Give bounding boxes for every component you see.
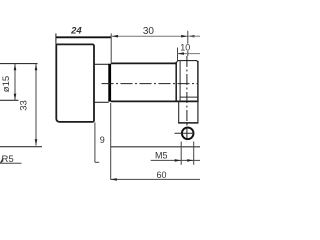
svg-text:24: 24 [70,25,82,36]
rear block right edge [197,61,199,102]
M5 arrow 2 [187,159,193,162]
hole horizontal crosshair [175,132,194,134]
dim 33 line [35,64,37,146]
M5 hole circle [182,128,194,140]
dim right of junction: arrow pointing left [188,35,194,38]
rear block top edge [176,61,198,63]
cylinder body bottom edge [111,100,199,102]
leader L-mark foot [95,161,99,163]
axis centerline (dash-dot) [102,83,199,85]
leader L-mark vertical from knob corner [94,122,96,162]
rear washer thick line [175,62,177,101]
dim line right stub [188,35,200,37]
svg-text:10: 10 [180,42,190,52]
dim phi15 line [14,64,16,100]
left ext line bottom (y146.7) [0,146,42,148]
svg-text:M5: M5 [155,151,168,161]
dim 33 top arrow [35,64,38,70]
rear lower step left edge [178,102,180,123]
M5 right extension line [193,142,195,165]
svg-text:ø15: ø15 [1,76,12,92]
M5 left extension line [180,142,182,165]
horizontal line y146.8 [111,146,200,148]
dim 33 bottom arrow [35,139,38,145]
dim 30 line [112,35,188,37]
svg-text:9: 9 [100,135,105,145]
dim 30 right arrow [181,35,187,38]
svg-text:30: 30 [143,26,155,37]
left ext line mid (y100.3) [0,99,19,101]
block vertical centerline (dash-dot) [186,56,188,142]
shared extension line at x111 [110,33,112,63]
dim 10 extension [177,48,179,61]
R5 leader tail [1,158,4,163]
dim 24 extension left [55,33,57,44]
svg-text:33: 33 [19,100,30,111]
dim 24 line (bold) [56,36,111,38]
extension x187.6 lower [187,51,189,56]
M5 arrow 1 [175,159,181,162]
dim 10 line [178,53,201,55]
neck top edge [94,63,109,65]
dim 60 line [110,178,200,180]
svg-text:60: 60 [156,170,166,180]
rear lower step right edge [197,102,199,123]
neck bottom edge [94,101,109,103]
extension line x110.7 below body [110,103,112,180]
R5 underline [0,162,22,164]
rear block inner horizontal line [180,96,198,98]
rear lower step bottom edge [178,122,198,124]
dim 60 arrow [111,178,117,181]
M5 dim/leader line [151,159,200,161]
left ext line top (y63.6) [0,63,38,65]
dim 10 arrow [178,52,184,55]
dim phi15 bottom arrow [14,94,17,100]
dim 30 left arrow [112,35,118,38]
extension x187.6 upper [187,31,189,44]
washer (thick black flange) [108,64,111,102]
knob body outline [56,44,94,122]
cylinder body top edge [111,62,176,64]
rear block inner chamfer line [179,61,181,101]
dim phi15 top arrow [14,64,17,70]
